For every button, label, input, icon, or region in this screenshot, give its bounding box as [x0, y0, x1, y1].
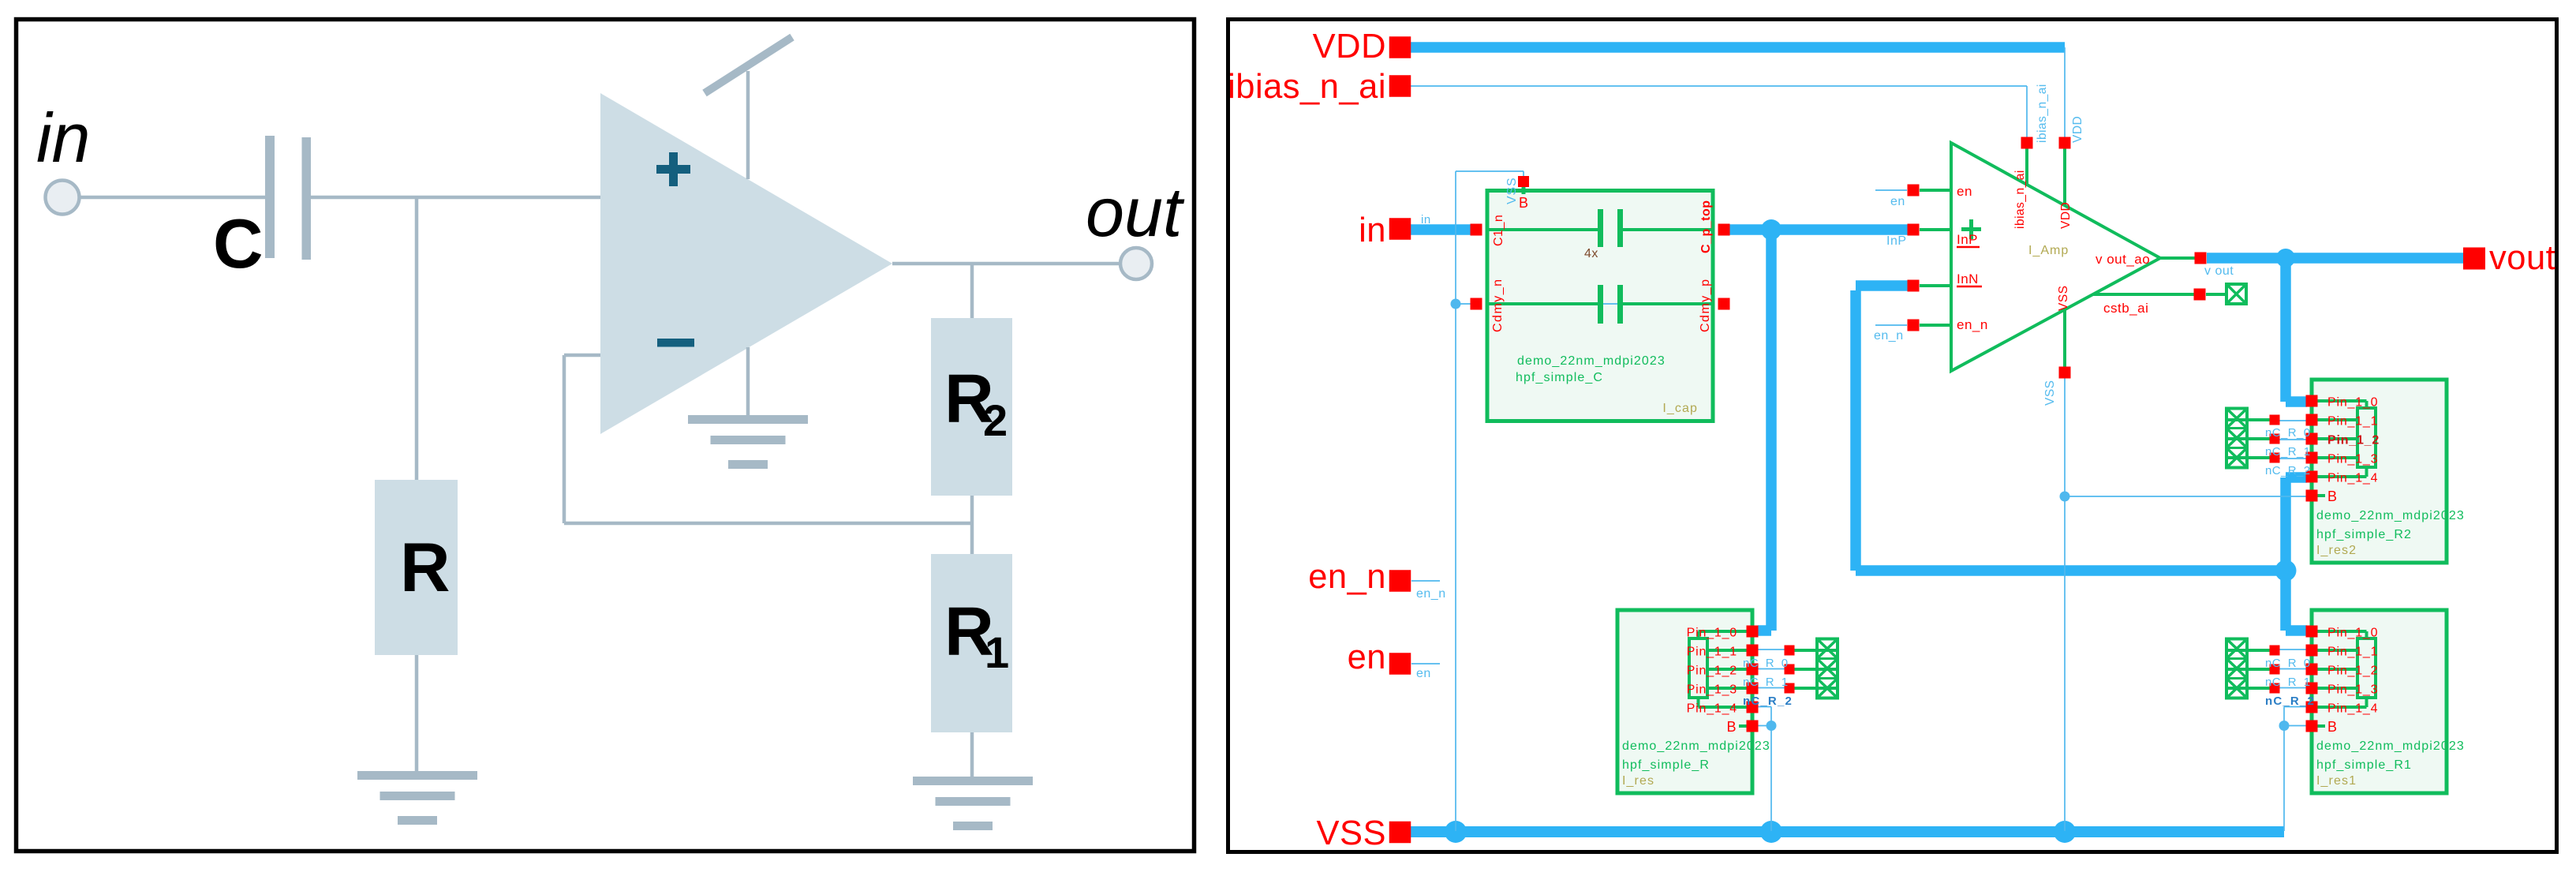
svg-text:Pin_1_4: Pin_1_4 — [2327, 472, 2378, 485]
svg-text:VSS: VSS — [1316, 814, 1386, 852]
svg-text:demo_22nm_mdpi2023: demo_22nm_mdpi2023 — [2316, 509, 2465, 522]
svg-text:I_res2: I_res2 — [2316, 544, 2357, 557]
svg-text:VDD: VDD — [1313, 28, 1386, 66]
svg-text:C1_n: C1_n — [1492, 215, 1505, 246]
svg-text:nC_R_0: nC_R_0 — [1743, 657, 1788, 670]
svg-text:4x: 4x — [1584, 247, 1598, 260]
svg-text:vout: vout — [2489, 239, 2555, 277]
svg-text:nC_R_1: nC_R_1 — [1743, 676, 1788, 689]
svg-text:Pin_1_1: Pin_1_1 — [1687, 646, 1737, 659]
svg-text:ibias_n_ai: ibias_n_ai — [2013, 170, 2027, 229]
svg-text:demo_22nm_mdpi2023: demo_22nm_mdpi2023 — [1622, 739, 1770, 753]
svg-text:B: B — [2327, 489, 2338, 504]
svg-text:B: B — [1519, 195, 1529, 211]
svg-text:demo_22nm_mdpi2023: demo_22nm_mdpi2023 — [2316, 739, 2465, 753]
svg-text:Pin_1_3: Pin_1_3 — [2327, 453, 2378, 466]
svg-text:en_n: en_n — [1308, 558, 1386, 596]
svg-text:VSS: VSS — [1505, 178, 1519, 204]
svg-text:I_Amp: I_Amp — [2028, 244, 2069, 257]
svg-text:demo_22nm_mdpi2023: demo_22nm_mdpi2023 — [1517, 354, 1666, 368]
svg-text:Pin_1_0: Pin_1_0 — [2327, 627, 2378, 640]
svg-text:VDD: VDD — [2071, 116, 2084, 143]
svg-text:Pin_1_4: Pin_1_4 — [2327, 702, 2378, 716]
svg-text:hpf_simple_R1: hpf_simple_R1 — [2316, 758, 2412, 772]
svg-text:nC_R_0: nC_R_0 — [2265, 426, 2310, 440]
svg-text:nC_R_2: nC_R_2 — [2265, 694, 2315, 708]
svg-text:en: en — [1416, 667, 1431, 680]
svg-text:in: in — [1421, 213, 1431, 226]
svg-text:Pin_1_4: Pin_1_4 — [1687, 702, 1737, 716]
svg-text:en: en — [1348, 638, 1386, 676]
svg-text:nC_R_0: nC_R_0 — [2265, 657, 2310, 670]
svg-text:nC_R_1: nC_R_1 — [2265, 676, 2310, 689]
svg-text:en_n: en_n — [1874, 329, 1904, 343]
svg-text:ibias_n_ai: ibias_n_ai — [2036, 84, 2049, 143]
svg-text:in: in — [36, 99, 91, 177]
svg-text:Pin_1_2: Pin_1_2 — [1687, 664, 1737, 678]
svg-text:I_cap: I_cap — [1662, 402, 1698, 415]
svg-text:v out_ao: v out_ao — [2096, 252, 2150, 267]
svg-text:B: B — [1726, 719, 1737, 735]
svg-text:Pin_1_1: Pin_1_1 — [2327, 646, 2378, 659]
svg-text:C: C — [213, 204, 264, 283]
svg-text:out: out — [1086, 173, 1185, 251]
svg-text:en_n: en_n — [1416, 587, 1446, 601]
svg-text:R: R — [400, 528, 451, 606]
svg-text:Pin_1_0: Pin_1_0 — [2327, 396, 2378, 410]
svg-text:hpf_simple_C: hpf_simple_C — [1516, 371, 1603, 384]
svg-text:I_res1: I_res1 — [2316, 774, 2357, 788]
svg-text:Pin_1_2: Pin_1_2 — [2327, 664, 2378, 678]
svg-text:VSS: VSS — [2057, 285, 2070, 311]
svg-text:VSS: VSS — [2043, 380, 2057, 406]
svg-text:InP: InP — [1957, 232, 1978, 247]
svg-text:Cdmy_p: Cdmy_p — [1699, 278, 1712, 332]
svg-text:ibias_n_ai: ibias_n_ai — [1228, 68, 1386, 106]
svg-text:hpf_simple_R: hpf_simple_R — [1622, 758, 1710, 772]
svg-text:B: B — [2327, 719, 2338, 735]
svg-text:en_n: en_n — [1957, 317, 1988, 332]
svg-text:nC_R_2: nC_R_2 — [2265, 464, 2310, 477]
svg-text:in: in — [1359, 212, 1386, 249]
svg-text:VDD: VDD — [2059, 202, 2073, 229]
svg-text:en: en — [1890, 195, 1905, 208]
svg-text:Pin_1_2: Pin_1_2 — [2327, 434, 2380, 447]
svg-text:nC_R_1: nC_R_1 — [2265, 445, 2310, 459]
svg-text:2: 2 — [983, 395, 1008, 445]
svg-text:InP: InP — [1886, 234, 1907, 248]
svg-text:I_res: I_res — [1622, 774, 1654, 788]
svg-text:Pin_1_1: Pin_1_1 — [2327, 415, 2378, 429]
svg-text:cstb_ai: cstb_ai — [2103, 301, 2148, 316]
svg-text:1: 1 — [985, 627, 1009, 677]
svg-text:Pin_1_3: Pin_1_3 — [1687, 683, 1737, 697]
svg-text:nC_R_2: nC_R_2 — [1743, 694, 1793, 708]
svg-text:C_p_top: C_p_top — [1699, 200, 1713, 254]
svg-text:hpf_simple_R2: hpf_simple_R2 — [2316, 528, 2412, 541]
svg-text:Cdmy_n: Cdmy_n — [1491, 278, 1505, 332]
svg-text:v out: v out — [2204, 264, 2234, 278]
svg-text:en: en — [1957, 184, 1972, 199]
svg-text:Pin_1_0: Pin_1_0 — [1687, 627, 1737, 640]
svg-text:Pin_1_3: Pin_1_3 — [2327, 683, 2378, 697]
svg-text:InN: InN — [1957, 271, 1979, 286]
